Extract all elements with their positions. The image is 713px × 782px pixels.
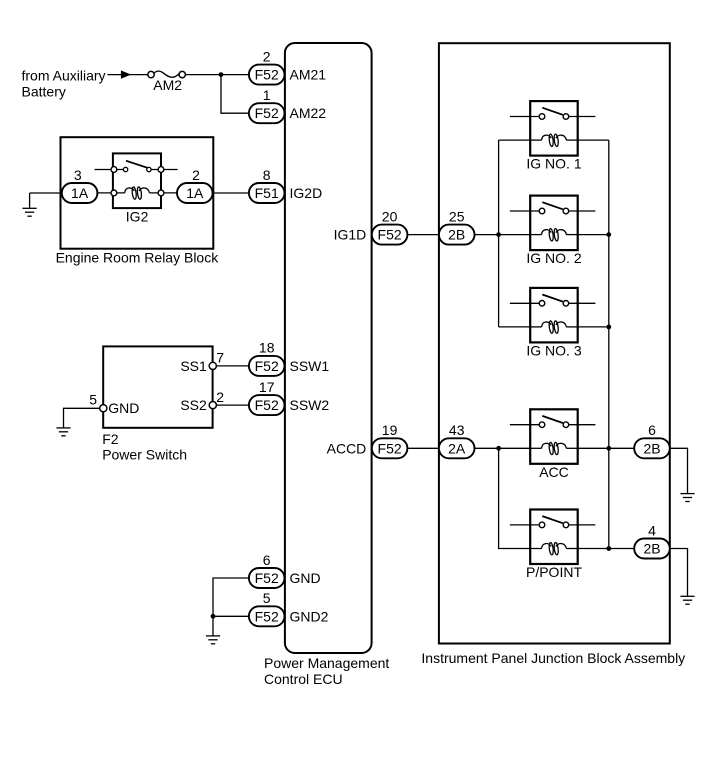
svg-text:P/POINT: P/POINT [526, 564, 582, 580]
svg-text:F52: F52 [255, 67, 279, 83]
svg-text:Engine Room Relay Block: Engine Room Relay Block [56, 249, 220, 265]
wire 2B pin 6 to ground [670, 448, 688, 493]
svg-text:6: 6 [648, 422, 656, 438]
fuse AM2 [148, 71, 186, 78]
ECU U1 Power Management Control ECU body [285, 43, 372, 653]
connector 1A (relay IG2 terminal 3) [62, 183, 98, 203]
connector 2B (ACC ground) [634, 438, 670, 458]
arrow current-direction marker [121, 70, 131, 78]
wire left bus to IG NO.3 coil [499, 326, 531, 328]
svg-text:2: 2 [263, 48, 271, 64]
svg-text:SS2: SS2 [180, 397, 207, 413]
svg-text:AM21: AM21 [290, 67, 327, 83]
svg-text:Instrument Panel Junction Bloc: Instrument Panel Junction Block Assembly [421, 650, 685, 666]
terminal pin 2 (SS2) [209, 402, 216, 409]
connector F52 (GND) [249, 568, 285, 588]
wire SS2 to connector F52 pin 17 [213, 404, 249, 406]
svg-text:Control ECU: Control ECU [264, 671, 343, 687]
svg-text:Power Management: Power Management [264, 655, 389, 671]
ground symbol for P/POINT relay [680, 596, 694, 604]
wire ACC coil to connector 2B pin 6 [578, 447, 635, 449]
svg-text:GND: GND [108, 400, 139, 416]
relay IG NO. 2 [510, 196, 596, 251]
wire SS1 to connector F52 pin 18 [213, 365, 249, 367]
svg-text:Power Switch: Power Switch [102, 447, 187, 463]
wire ECU GND2 to ground [213, 616, 249, 636]
connector 1A (relay IG2 terminal 2) [177, 183, 213, 203]
connector F52 (ACCD) [372, 438, 408, 458]
svg-text:F51: F51 [255, 185, 279, 201]
svg-text:ACCD: ACCD [327, 440, 367, 456]
wire ground lead left of relay block [29, 193, 31, 208]
wire left bus to IG NO.1 coil [499, 139, 531, 141]
svg-text:from Auxiliary: from Auxiliary [22, 68, 106, 84]
svg-text:2B: 2B [643, 541, 660, 557]
junction node right bus at IG NO.2 coil [606, 232, 611, 237]
svg-text:IG NO. 3: IG NO. 3 [526, 342, 581, 358]
Instrument Panel Junction Block Assembly enclosure [439, 43, 670, 643]
svg-text:2B: 2B [643, 440, 660, 456]
relay ACC [510, 409, 596, 464]
svg-text:2: 2 [216, 389, 224, 405]
svg-text:ACC: ACC [539, 464, 569, 480]
svg-text:2: 2 [192, 167, 200, 183]
connector F52 (AM21) [249, 65, 285, 85]
svg-text:8: 8 [263, 167, 271, 183]
relay IG2 [95, 153, 178, 208]
wire IG NO.1 coil to right bus [578, 139, 609, 141]
svg-text:19: 19 [382, 422, 398, 438]
wire fuse AM2 to connector F52 pin 2 [185, 74, 249, 76]
svg-text:F52: F52 [378, 440, 402, 456]
relay IG NO. 1 [510, 101, 596, 156]
wire battery feed to fuse AM2 [108, 74, 149, 76]
terminal pin 7 (SS1) [209, 362, 216, 369]
wire 2A pin 43 to relay ACC coil [475, 447, 531, 449]
svg-text:IG2: IG2 [126, 208, 149, 224]
wire relay IG2 terminal 2 to connector F51 [213, 192, 249, 194]
svg-text:AM22: AM22 [290, 105, 327, 121]
connector F52 (SSW1) [249, 356, 285, 376]
wire left bus IG relays coils [498, 140, 500, 327]
connector 2B (IG1D input) [439, 225, 475, 245]
wire 2B pin 4 to ground [670, 549, 688, 597]
wire ground to relay IG2 terminal 3 [30, 192, 61, 194]
connector F52 (GND2) [249, 606, 285, 626]
svg-text:F52: F52 [255, 397, 279, 413]
svg-text:25: 25 [449, 208, 465, 224]
junction node right bus at IG NO.3 coil [606, 325, 611, 330]
svg-text:5: 5 [263, 590, 271, 606]
ground symbol below Power Switch [56, 428, 70, 436]
svg-text:F52: F52 [378, 227, 402, 243]
wire branch to relay P/POINT coil [499, 448, 531, 548]
svg-text:IG NO. 2: IG NO. 2 [526, 250, 581, 266]
svg-text:7: 7 [216, 349, 224, 365]
connector F52 (IG1D) [372, 225, 408, 245]
connector 2A (ACCD input) [439, 438, 475, 458]
ground symbol below ECU GND [206, 636, 220, 644]
Engine Room Relay Block enclosure [61, 137, 214, 249]
svg-text:IG1D: IG1D [334, 227, 367, 243]
wire right bus relay coil returns [608, 140, 610, 548]
junction node ground bus junction [211, 614, 216, 619]
connector F52 (SSW2) [249, 395, 285, 415]
junction node right bus at P/POINT coil [606, 546, 611, 551]
wire connector F52 pin 19 to junction block 2A [407, 447, 439, 449]
svg-text:IG2D: IG2D [290, 185, 323, 201]
F2 Power Switch enclosure [103, 346, 212, 427]
svg-text:SS1: SS1 [180, 358, 207, 374]
connector F51 (IG2D) [249, 183, 285, 203]
relay IG NO. 3 [510, 288, 596, 343]
terminal pin 5 (GND) [100, 405, 107, 412]
svg-text:AM2: AM2 [153, 77, 182, 93]
svg-text:F52: F52 [255, 608, 279, 624]
svg-text:43: 43 [449, 422, 465, 438]
wire 2B pin 25 to relay IG NO.2 coil [475, 234, 531, 236]
svg-text:SSW1: SSW1 [290, 358, 330, 374]
svg-text:GND: GND [290, 570, 321, 586]
wire connector F52 pin 20 to junction block 2B [407, 234, 439, 236]
wire IG NO.2 coil to right bus [578, 234, 609, 236]
svg-text:Battery: Battery [22, 84, 66, 100]
svg-text:1A: 1A [186, 185, 204, 201]
svg-text:3: 3 [74, 167, 82, 183]
svg-text:F52: F52 [255, 358, 279, 374]
connector 2B (P/POINT ground) [634, 539, 670, 559]
ground symbol for ACC relay [680, 494, 694, 502]
svg-text:18: 18 [259, 340, 275, 356]
svg-text:5: 5 [89, 391, 97, 407]
wire P/POINT coil to connector 2B pin 4 [578, 548, 635, 550]
svg-text:20: 20 [382, 208, 398, 224]
svg-text:1A: 1A [71, 185, 89, 201]
svg-text:GND2: GND2 [290, 608, 329, 624]
junction node right bus at ACC coil [606, 446, 611, 451]
svg-text:F52: F52 [255, 570, 279, 586]
svg-text:F2: F2 [102, 431, 119, 447]
wire branch to connector F52 pin 1 [221, 75, 249, 114]
junction node AM2 output branch [219, 72, 224, 77]
wire IG NO.3 coil to right bus [578, 326, 609, 328]
svg-text:17: 17 [259, 379, 275, 395]
svg-text:2B: 2B [448, 227, 465, 243]
ground symbol left of Engine Room Relay Block [23, 208, 37, 216]
svg-text:IG NO. 1: IG NO. 1 [526, 156, 581, 172]
wire ECU GND to ground bus [213, 578, 249, 616]
svg-text:F52: F52 [255, 105, 279, 121]
junction node left bus at IG NO.2 coil [496, 232, 501, 237]
junction node ACC coil branch [496, 446, 501, 451]
relay P/POINT [510, 510, 596, 565]
svg-text:6: 6 [263, 552, 271, 568]
svg-text:2A: 2A [448, 440, 466, 456]
svg-text:1: 1 [263, 87, 271, 103]
svg-text:4: 4 [648, 522, 656, 538]
svg-text:SSW2: SSW2 [290, 397, 330, 413]
connector F52 (AM22) [249, 103, 285, 123]
wire GND terminal to ground [64, 408, 104, 428]
